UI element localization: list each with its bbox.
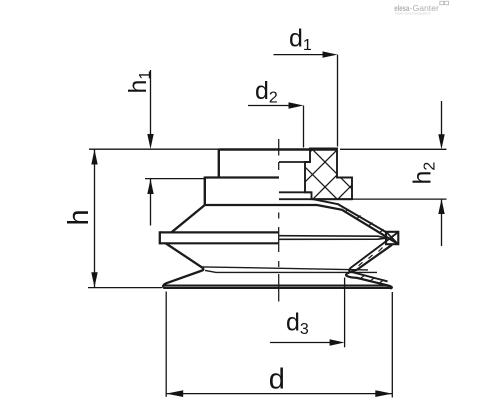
- d dimension line with arrows: [166, 393, 392, 395]
- flange wall section lines (right of center): [279, 236, 386, 238]
- svg-text:d1: d1: [289, 24, 312, 54]
- flange ring top edge (profile, left of center): [160, 231, 279, 233]
- return hatch ticks: [359, 248, 384, 284]
- lip top surface: [165, 284, 389, 286]
- bore top line: [279, 161, 306, 163]
- flange ring bottom edge (profile, left of center): [160, 242, 279, 244]
- flange tip square diagonal: [386, 232, 398, 244]
- lower cone left to waist to lip tip: [163, 244, 203, 288]
- dim d2: [248, 77, 304, 148]
- d left extension line: [165, 292, 167, 397]
- d3 dimension line with arrow: [270, 342, 331, 344]
- h1 top extension line: [89, 148, 218, 150]
- dim h2: [340, 101, 447, 246]
- d3 extension line: [344, 278, 346, 348]
- h2 upper line: [441, 101, 443, 136]
- svg-text:h1: h1: [124, 71, 154, 94]
- h bottom extension line: [88, 287, 162, 289]
- cone hatch ticks: [345, 209, 384, 233]
- inner cone right: [313, 199, 386, 232]
- svg-text:d2: d2: [255, 77, 278, 107]
- flange tip section square: [386, 232, 398, 244]
- suction cup body: top edge: [219, 148, 337, 150]
- d2 extension line: [303, 106, 305, 148]
- right wall outer return and lip: [346, 245, 392, 289]
- washer top line: [279, 191, 312, 193]
- outer cone right: [317, 205, 398, 244]
- dim h1: [89, 70, 218, 226]
- h1 step extension line: [145, 178, 206, 180]
- threaded insert outline (sectioned): [305, 149, 352, 200]
- right wall inner return: [349, 232, 398, 281]
- svg-text:Thousands of products at www.e: Thousands of products at www.elesa-gante…: [395, 12, 431, 16]
- lip bottom edge: [163, 287, 391, 289]
- h2 top extension line: [340, 148, 447, 150]
- upper cone left: [172, 205, 205, 232]
- lower step left edge: [204, 177, 206, 206]
- flange left cap: [159, 231, 161, 244]
- d2 dimension line with arrow: [248, 105, 290, 107]
- dim d: [166, 292, 392, 398]
- h1 upper line: [150, 70, 152, 136]
- dim d1: [274, 24, 338, 146]
- fitting bottom line: [204, 204, 317, 206]
- inner opening circle edge: [205, 270, 377, 272]
- h1 lower line: [150, 179, 152, 226]
- top step left edge: [218, 149, 220, 178]
- d1 dimension line with arrow: [274, 54, 325, 56]
- h2 lower line: [441, 199, 443, 246]
- d right extension line: [391, 292, 393, 398]
- svg-text:h: h: [63, 209, 95, 225]
- step shoulder line: [205, 176, 279, 178]
- d1 extension line: [337, 55, 339, 147]
- washer bottom line: [279, 198, 352, 200]
- svg-text:d: d: [269, 364, 285, 396]
- waist circle edge: [203, 267, 369, 270]
- svg-text:d3: d3: [286, 309, 309, 339]
- dim d3: [270, 278, 345, 348]
- svg-text:h2: h2: [409, 162, 439, 185]
- logo elesa-Ganter: [394, 1, 448, 15]
- h line: [94, 150, 96, 288]
- center line: [278, 139, 280, 302]
- flange wall section lower line: [279, 238, 386, 239]
- dim h: [63, 150, 162, 288]
- insert cross-hatch: [270, 130, 410, 225]
- h2 bottom extension line: [352, 198, 447, 200]
